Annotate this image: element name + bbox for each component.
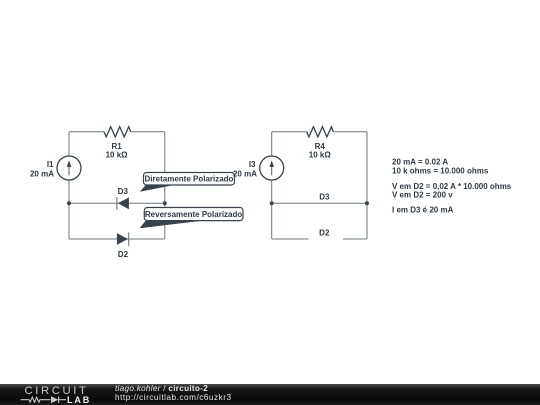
svg-text:I1: I1 bbox=[47, 160, 54, 169]
svg-text:Diretamente Polarizado: Diretamente Polarizado bbox=[145, 175, 234, 184]
svg-text:D2: D2 bbox=[118, 250, 129, 259]
svg-text:I3: I3 bbox=[249, 160, 256, 169]
svg-text:D3: D3 bbox=[118, 187, 129, 196]
svg-text:Reversamente Polarizado: Reversamente Polarizado bbox=[145, 210, 242, 219]
svg-text:10 k ohms = 10.000 ohms: 10 k ohms = 10.000 ohms bbox=[392, 167, 489, 176]
svg-text:20 mA: 20 mA bbox=[30, 169, 54, 178]
svg-text:I em D3 é 20 mA: I em D3 é 20 mA bbox=[392, 206, 454, 215]
svg-text:20 mA: 20 mA bbox=[233, 169, 257, 178]
svg-text:V em D2 = 0,02 A * 10.000 ohms: V em D2 = 0,02 A * 10.000 ohms bbox=[392, 182, 512, 191]
svg-text:D2: D2 bbox=[319, 229, 330, 238]
svg-text:10 kΩ: 10 kΩ bbox=[309, 151, 332, 160]
svg-text:D3: D3 bbox=[319, 192, 330, 201]
svg-text:10 kΩ: 10 kΩ bbox=[106, 150, 129, 159]
svg-text:20 mA = 0.02 A: 20 mA = 0.02 A bbox=[392, 158, 448, 167]
svg-text:V em D2 = 200 v: V em D2 = 200 v bbox=[392, 191, 453, 200]
